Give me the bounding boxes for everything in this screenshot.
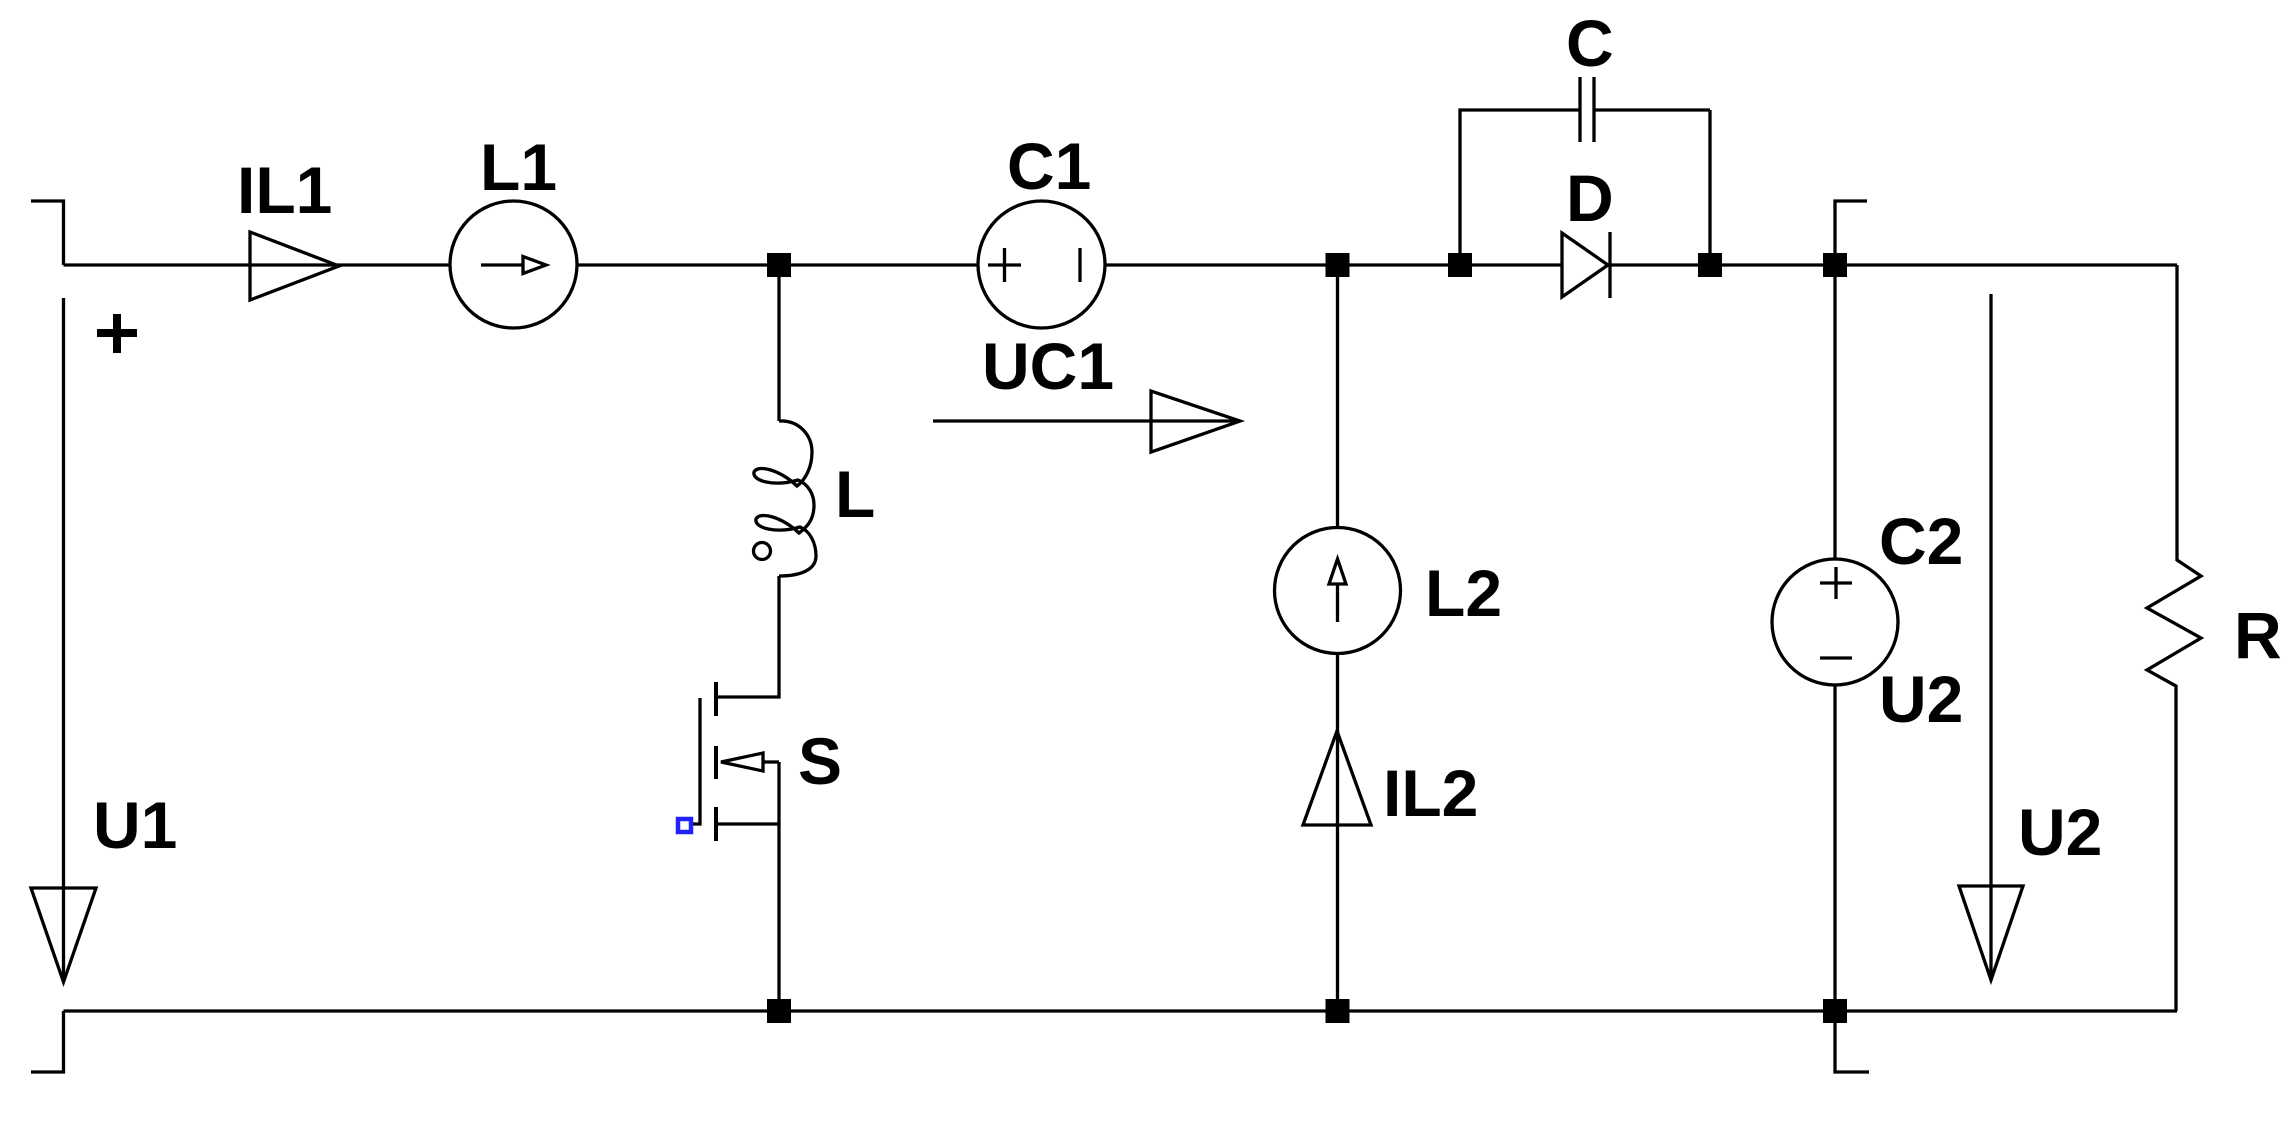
node F [767,999,791,1023]
capacitor C branch [1460,110,1580,265]
svg-text:U2: U2 [1879,662,1963,736]
resistor R [2147,265,2201,1011]
gate handle (blue square) [678,819,691,832]
transistor S (MOSFET) [714,682,718,716]
arrow UC1 [933,419,1240,422]
plus sign U1 [97,314,137,353]
voltage source C2 [1772,559,1898,685]
svg-text:L: L [835,457,875,531]
input terminal top-left [31,201,64,265]
wire node D down to C2 [1833,277,1836,559]
svg-text:IL1: IL1 [237,153,332,227]
svg-text:IL2: IL2 [1383,756,1478,830]
bottom rail [64,1009,2178,1012]
output terminal bottom-right [1835,1011,1869,1072]
svg-text:C: C [1566,6,1614,80]
svg-text:S: S [798,724,842,798]
svg-text:U1: U1 [93,788,177,862]
voltage arrow U2 [1989,294,1992,980]
wire C2 to bottom rail [1833,685,1836,1011]
svg-text:L2: L2 [1425,556,1502,630]
wire inductor to MOSFET drain [716,576,779,697]
current source L1 [450,201,577,328]
node E [1823,253,1847,277]
svg-text:U2: U2 [2018,795,2102,869]
wire MOSFET source to bottom rail [777,824,780,1011]
svg-text:L1: L1 [480,130,557,204]
node C [1448,253,1472,277]
input terminal bottom-left [31,1011,64,1072]
node D [1698,253,1722,277]
wire top rail left segment [64,263,451,266]
node A [767,253,791,277]
svg-text:UC1: UC1 [982,329,1114,403]
wire L1 to C1 [577,263,978,266]
wire node B down to L2 [1336,277,1339,528]
current source L2 [1275,528,1401,654]
svg-text:D: D [1566,161,1614,235]
node B [1326,253,1350,277]
svg-text:C1: C1 [1007,129,1091,203]
wire L2 to bottom rail [1336,653,1339,1011]
svg-text:R: R [2234,598,2282,672]
inductor L [754,421,816,576]
output terminal top-right [1835,201,1867,265]
current arrow IL1 [250,232,339,300]
wire node A down to inductor [777,277,780,421]
node H [1823,999,1847,1023]
svg-text:C2: C2 [1879,504,1963,578]
diode D [1562,233,1608,297]
wire C1 to right corner [1105,263,2177,266]
voltage arrow U1 [62,298,65,982]
node G [1326,999,1350,1023]
voltage source C1 [978,201,1105,328]
current arrow IL2 [1303,731,1371,825]
